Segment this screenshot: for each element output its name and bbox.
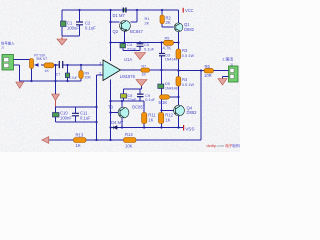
svg-text:1K: 1K xyxy=(142,72,147,76)
svg-text:0.1uF: 0.1uF xyxy=(80,115,91,120)
svg-text:0.1uF: 0.1uF xyxy=(144,47,155,52)
svg-text:10K: 10K xyxy=(125,144,133,149)
svg-text:22nF: 22nF xyxy=(128,98,137,102)
svg-text:C7: C7 xyxy=(56,73,61,77)
svg-text:2K: 2K xyxy=(166,20,171,25)
svg-text:3: 3 xyxy=(99,62,101,66)
svg-text:T3: T3 xyxy=(108,104,114,109)
svg-text:4.7K: 4.7K xyxy=(163,46,172,51)
svg-text:1.输出: 1.输出 xyxy=(222,56,233,62)
svg-text:VCC: VCC xyxy=(185,8,194,13)
svg-text:1K: 1K xyxy=(165,117,170,122)
svg-text:R14: R14 xyxy=(125,132,133,137)
svg-text:0.1uF: 0.1uF xyxy=(145,98,155,102)
svg-text:D1 M7: D1 M7 xyxy=(113,13,126,18)
svg-text:D5: D5 xyxy=(165,82,170,86)
svg-text:0.1uF: 0.1uF xyxy=(85,25,96,30)
svg-text:R5: R5 xyxy=(165,37,170,41)
svg-text:4.7uF: 4.7uF xyxy=(69,76,78,80)
svg-text:R1: R1 xyxy=(145,17,150,21)
svg-text:1K: 1K xyxy=(76,143,81,148)
svg-text:J2: J2 xyxy=(230,62,234,66)
svg-text:J1: J1 xyxy=(1,46,5,50)
svg-text:1K: 1K xyxy=(45,69,50,73)
svg-text:5.1K: 5.1K xyxy=(159,100,168,105)
svg-text:Q2: Q2 xyxy=(113,29,119,34)
svg-text:1N4148: 1N4148 xyxy=(165,58,178,62)
svg-text:2K: 2K xyxy=(145,22,150,26)
svg-text:1K: 1K xyxy=(148,117,153,122)
svg-text:1N4148: 1N4148 xyxy=(165,86,178,90)
svg-text:39K K7: 39K K7 xyxy=(36,57,47,61)
svg-text:R13: R13 xyxy=(76,133,84,138)
svg-text:U1A: U1A xyxy=(124,57,132,62)
svg-text:22nF: 22nF xyxy=(127,47,137,52)
svg-text:LM1876: LM1876 xyxy=(120,74,136,79)
svg-text:10R: 10R xyxy=(204,73,212,78)
svg-text:R3: R3 xyxy=(182,48,188,53)
svg-text:0.5 1W: 0.5 1W xyxy=(182,83,194,87)
svg-text:dzdiy.com 电子制作网: dzdiy.com 电子制作网 xyxy=(207,143,241,148)
svg-text:R7: R7 xyxy=(142,64,147,68)
svg-text:R6: R6 xyxy=(205,64,211,69)
svg-text:D882: D882 xyxy=(184,27,195,32)
svg-text:BC847: BC847 xyxy=(130,29,143,34)
svg-text:VSS: VSS xyxy=(185,126,194,131)
svg-text:D4 M7: D4 M7 xyxy=(111,120,124,125)
svg-text:2: 2 xyxy=(99,72,101,76)
svg-text:R4: R4 xyxy=(182,77,188,82)
svg-text:0.5 1W: 0.5 1W xyxy=(182,54,194,58)
svg-text:100uF: 100uF xyxy=(67,25,79,30)
svg-text:100nF: 100nF xyxy=(60,115,72,120)
svg-text:D882: D882 xyxy=(187,110,198,115)
svg-text:20K: 20K xyxy=(85,75,92,79)
svg-text:BC857: BC857 xyxy=(132,104,145,109)
